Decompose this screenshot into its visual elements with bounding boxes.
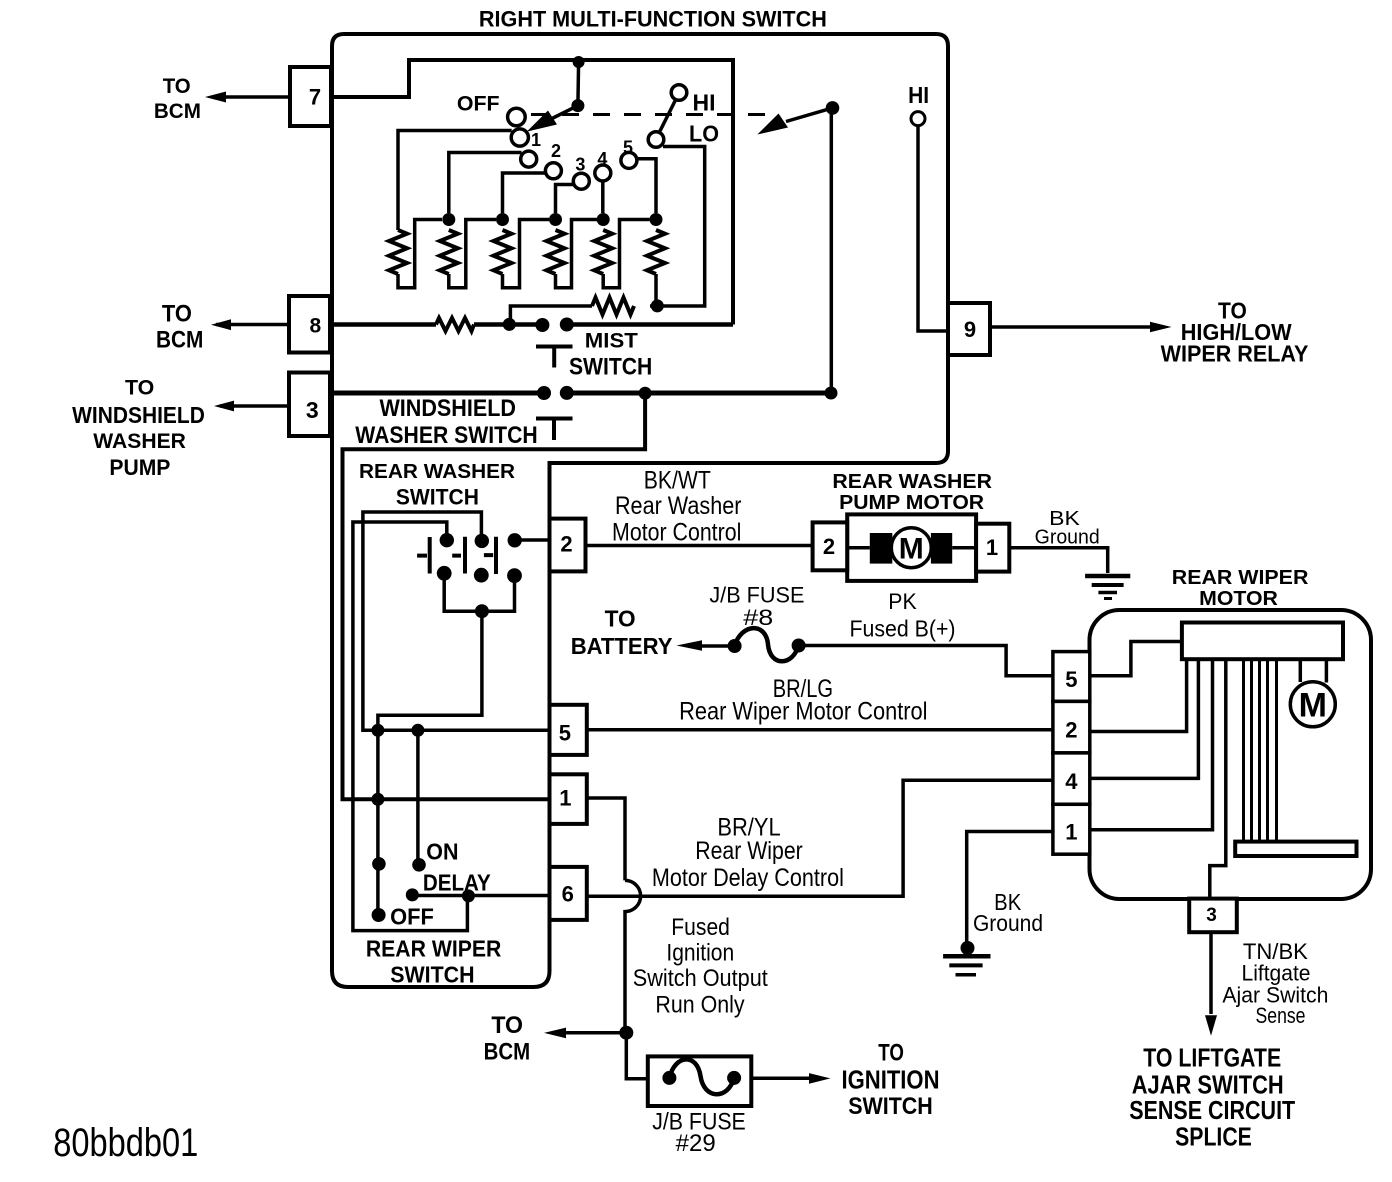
wire: R2 bottom U-turn to node 2 [449,220,496,288]
svg-text:3: 3 [575,155,585,175]
washer switch left contact [537,386,551,400]
pump connector 1 box [976,524,1009,572]
svg-text:BCM: BCM [484,1038,531,1065]
contact HI circle (arm side) [671,85,687,101]
motor M symbol leads [1300,659,1326,682]
wire: motor pin 2 internal [1090,659,1187,731]
svg-text:MIST: MIST [585,329,638,352]
resistor R7 (mist resistor) [592,298,634,315]
motor connector 3 box [1189,899,1237,933]
wiper selector arm 1 (arrow to OFF/1) [527,106,578,132]
motor connector 5 box [1053,652,1090,702]
wire: pump pin 1 to ground [1009,548,1107,573]
wire: washer switch contact C to connector 2 [515,538,550,542]
svg-text:1: 1 [559,786,571,811]
contact LO circle [648,132,664,148]
svg-text:J/B FUSE: J/B FUSE [709,583,804,608]
svg-text:TO: TO [605,606,636,632]
mist switch movable plate [536,347,573,368]
rear washer switch plate 1 [417,537,430,574]
arrow to BCM (pin 7) [205,92,290,103]
rear washer switch plate 2 [452,537,465,574]
arrow to battery [676,640,734,650]
washer switch contact B top [475,534,489,548]
motor terminal block [1182,623,1343,660]
resistor R2 [440,230,458,274]
connector 7 box [290,67,331,126]
svg-text:SWITCH: SWITCH [848,1093,933,1120]
arrow to high/low wiper relay [990,322,1172,333]
svg-text:ON: ON [426,839,458,865]
motor M symbol [1290,682,1335,727]
svg-text:PK: PK [888,589,917,614]
wire: wiper arm chain (5-line to OFF) [376,730,380,915]
resistor R4 [547,230,565,274]
wire: LO contact to mist resistor row [650,147,705,307]
wire: pin 7 to internal bus (top edge and right edge of inner loop) [331,60,733,325]
commutator segment 4 [1266,659,1269,841]
svg-text:TO: TO [125,376,154,400]
svg-text:Motor Control: Motor Control [612,519,741,547]
motor connector 2 box [1053,701,1090,753]
connector 1 box (switch) [550,774,587,824]
svg-text:2: 2 [560,532,572,557]
svg-text:Ignition: Ignition [666,940,734,967]
wire: washer switch bottom bus [444,573,514,611]
svg-text:9: 9 [964,317,976,342]
node: wiper arm pivot [571,99,584,112]
svg-text:TO: TO [491,1012,523,1039]
svg-text:OFF: OFF [457,92,500,115]
wire: washer switch output to connector 1 line [343,393,646,799]
fuse box J/B FUSE #29 [648,1056,752,1106]
node: mist resistor junction [651,299,664,312]
svg-text:5: 5 [1065,667,1077,692]
wire: motor pin 1 to ground [967,832,1053,947]
washer switch contact A top [440,533,454,547]
connector 6 box (switch) [550,867,587,920]
arrow to windshield washer pump [214,401,289,412]
svg-text:SWITCH: SWITCH [390,962,474,988]
pump motor brushes (black blocks) [847,546,870,550]
svg-text:Ground: Ground [973,910,1043,936]
svg-text:MOTOR: MOTOR [1199,588,1278,610]
commutator segment 3 [1258,659,1261,841]
wire: detent contact to node 1 [449,153,522,214]
svg-text:PUMP: PUMP [109,455,170,480]
node 3 [549,213,562,226]
svg-text:80bbdb01: 80bbdb01 [53,1121,198,1165]
svg-text:7: 7 [309,85,321,110]
contact HI circle (pin 9) [911,112,925,126]
contact detent circle (unnumbered) [521,151,537,167]
connector 2 box (switch) [550,519,586,572]
svg-text:PUMP MOTOR: PUMP MOTOR [839,492,985,514]
node: arm chain mid junction [372,857,386,871]
svg-text:M: M [899,533,924,566]
motor park plate [1235,842,1356,856]
svg-text:REAR WIPER: REAR WIPER [366,935,502,961]
arm between HI and LO [659,99,676,133]
svg-text:WASHER: WASHER [93,429,186,453]
svg-text:REAR WASHER: REAR WASHER [832,471,992,493]
commutator segment 2 [1250,659,1253,841]
rear washer switch plate 3 [484,537,496,574]
svg-text:BATTERY: BATTERY [571,633,673,659]
svg-text:Run Only: Run Only [655,992,744,1019]
wire: R1 bottom U-turn to node 1 [398,220,442,288]
ground (pump motor BK) [1085,576,1130,599]
svg-text:LO: LO [689,120,719,146]
wire: washer switch contact A loop to delay junction [353,522,468,931]
connector 5 box (switch) [550,705,587,755]
svg-text:Rear Wiper Motor Control: Rear Wiper Motor Control [679,698,927,726]
svg-text:1: 1 [531,130,541,150]
connector 9 box [948,303,990,355]
rear wiper motor housing [1090,610,1372,899]
svg-text:Fused: Fused [671,914,730,941]
svg-text:TO: TO [162,301,192,328]
wire: contact 2 to node 2 [503,173,547,213]
svg-text:HI: HI [908,82,929,108]
svg-text:3: 3 [1206,905,1217,926]
svg-text:WIPER RELAY: WIPER RELAY [1161,341,1309,367]
svg-text:SWITCH: SWITCH [569,354,652,381]
wire: contact 3 to node 3 [556,185,575,214]
washer switch movable plate [536,419,573,441]
svg-text:TO: TO [878,1040,904,1067]
washer switch contact C top [508,533,522,547]
ground (rear wiper motor BK) [943,948,990,975]
node: ground junction [961,941,975,955]
svg-text:6: 6 [562,882,574,907]
node 4 [597,213,610,226]
wire: washer switch contact B to connector 5 line [363,512,550,730]
svg-text:IGNITION: IGNITION [842,1064,940,1094]
node: ON riser junction on 5-line [411,724,424,737]
wire: mist resistor row riser to pin 8 line [510,306,592,324]
fuse J/B FUSE #8 [728,628,806,661]
svg-text:OFF: OFF [390,904,434,930]
arrow to ignition switch [751,1073,830,1084]
wire: fused B(+) to motor pin 5 [799,646,1053,676]
svg-text:Rear Wiper: Rear Wiper [695,837,803,865]
wire: BR/YL rear wiper motor delay control (pin 6 to motor pin 4) [587,780,1053,896]
node: arm chain junction on 1-line [371,793,384,806]
svg-text:BK/WT: BK/WT [644,467,711,495]
svg-text:4: 4 [597,149,607,169]
svg-text:REAR WASHER: REAR WASHER [359,460,515,483]
wire: crossover hop and down to fuse 29 [625,880,641,1032]
svg-text:Rear Washer: Rear Washer [615,492,742,520]
svg-text:TO LIFTGATE: TO LIFTGATE [1143,1042,1281,1072]
motor connector 4 box [1053,753,1090,804]
wire: motor pin 1 internal [1090,659,1213,830]
right multi-function switch housing [332,34,948,987]
node: arm 2 junction on washer line [825,387,838,400]
wire: bus drop to wiper arm pivot [576,62,580,106]
fuse element #29 [662,1059,741,1094]
svg-text:8: 8 [309,315,321,338]
washer switch contact A bottom [437,566,452,581]
arrow: liftgate ajar switch sense [1205,932,1217,1036]
mist switch left contact [535,318,549,332]
wire: HI contact to pin 9 [918,126,948,331]
svg-text:SWITCH: SWITCH [396,484,479,509]
node: mist riser junction on pin 8 line [503,318,516,331]
motor connector 1 box [1053,804,1090,854]
contact 2 circle [545,163,561,179]
resistor R6 [647,230,665,274]
wire: motor pin 5 internal [1090,642,1182,676]
svg-text:SPLICE: SPLICE [1175,1122,1252,1152]
wire: ON contact riser [416,730,420,865]
svg-text:M: M [1299,687,1327,725]
svg-text:Switch Output: Switch Output [633,965,768,992]
contact 3 circle [573,173,589,189]
connector 3 box [289,373,330,437]
svg-text:WINDSHIELD: WINDSHIELD [379,395,516,422]
svg-text:DELAY: DELAY [423,869,491,895]
node 1 [442,213,455,226]
wire: motor pin 4 internal [1090,659,1199,778]
wire: down to J/B fuse 29 [626,1033,648,1079]
resistor R3 [494,230,512,274]
dashed mechanical link line [531,113,775,116]
svg-text:BCM: BCM [154,100,201,123]
wire: contact 5 to node 5 [636,159,656,213]
wire: R4 bottom U-turn to node 4 [556,220,598,288]
contact 1 circle [511,129,528,146]
svg-text:Motor Delay Control: Motor Delay Control [652,864,844,892]
washer switch contact B bottom [474,568,489,583]
wire: R3 bottom U-turn to node 3 [503,220,550,288]
arrow to BCM (pin 8) [211,319,289,330]
wire: DELAY contact to connector 6 [412,894,549,898]
svg-text:TO: TO [163,75,191,98]
connector 8 box [289,296,330,353]
wire: BK/WT rear washer motor control [586,544,813,548]
svg-text:RIGHT MULTI-FUNCTION SWITCH: RIGHT MULTI-FUNCTION SWITCH [479,7,827,32]
resistor R5 [594,230,612,274]
pump connector 2 box [813,522,848,570]
wire: R5 bottom U-turn to node 5 [603,220,649,288]
svg-text:2: 2 [1065,718,1077,743]
arrow to BCM (bottom) [544,1028,626,1039]
wire: bus return to connector 5 line [378,611,482,730]
svg-text:2: 2 [551,141,561,161]
contact DELAY [406,888,419,901]
svg-text:1: 1 [986,535,998,560]
svg-text:SENSE CIRCUIT: SENSE CIRCUIT [1129,1095,1295,1125]
wire: pin 8 line with resistor R8 [332,318,733,331]
svg-text:WINDSHIELD: WINDSHIELD [72,402,205,428]
wire: contact 1 to resistor ladder [398,131,512,231]
svg-text:#8: #8 [743,605,773,630]
node: washer switch bus junction [475,604,489,618]
commutator segment 5 [1275,659,1278,841]
svg-text:Sense: Sense [1256,1003,1306,1028]
svg-text:Fused B(+): Fused B(+) [850,616,956,642]
node: washer output junction [639,387,652,400]
washer switch contact C bottom [507,568,522,583]
wire: windshield washer line (pin 3) [332,391,831,396]
contact ON [412,858,426,872]
commutator segment 1 [1242,659,1245,841]
svg-text:#29: #29 [676,1130,716,1157]
washer switch right contact [560,386,574,400]
rear washer pump motor housing [847,514,976,581]
svg-text:3: 3 [306,397,319,423]
node 5 [650,213,663,226]
svg-text:BCM: BCM [156,327,203,354]
svg-text:2: 2 [823,534,835,559]
svg-text:1: 1 [1065,820,1077,845]
contact 5 circle [621,152,637,168]
node: BCM tap junction [619,1026,633,1040]
svg-text:5: 5 [623,138,633,158]
svg-text:REAR WIPER: REAR WIPER [1172,567,1309,589]
wiper selector arm 2 (arrow, HI/LO side) [757,101,839,393]
pump motor M symbol [891,528,931,568]
wire: R6 bottom to mist resistor node [654,274,658,306]
resistor R1 [389,230,407,274]
wire: pin 1 to fused ignition feed [587,798,625,880]
node: top bus junction [573,56,585,68]
svg-text:4: 4 [1065,769,1078,794]
node: arm chain junction on 5-line [371,724,384,737]
svg-text:HI: HI [693,89,716,115]
contact OFF circle [508,108,526,126]
node: delay junction [462,889,475,902]
svg-text:Ground: Ground [1035,527,1100,549]
wire: contact 4 to node 4 [601,180,605,213]
svg-text:WASHER SWITCH: WASHER SWITCH [355,422,537,449]
mist switch right contact [560,318,574,332]
node 2 [496,213,509,226]
contact OFF [372,908,386,922]
wire: motor pin 3 internal [1210,659,1226,898]
wire: BR/LG rear wiper motor control (pin 5 to motor pin 2) [587,728,1053,732]
svg-text:5: 5 [559,721,571,746]
contact 4 circle [595,165,611,181]
